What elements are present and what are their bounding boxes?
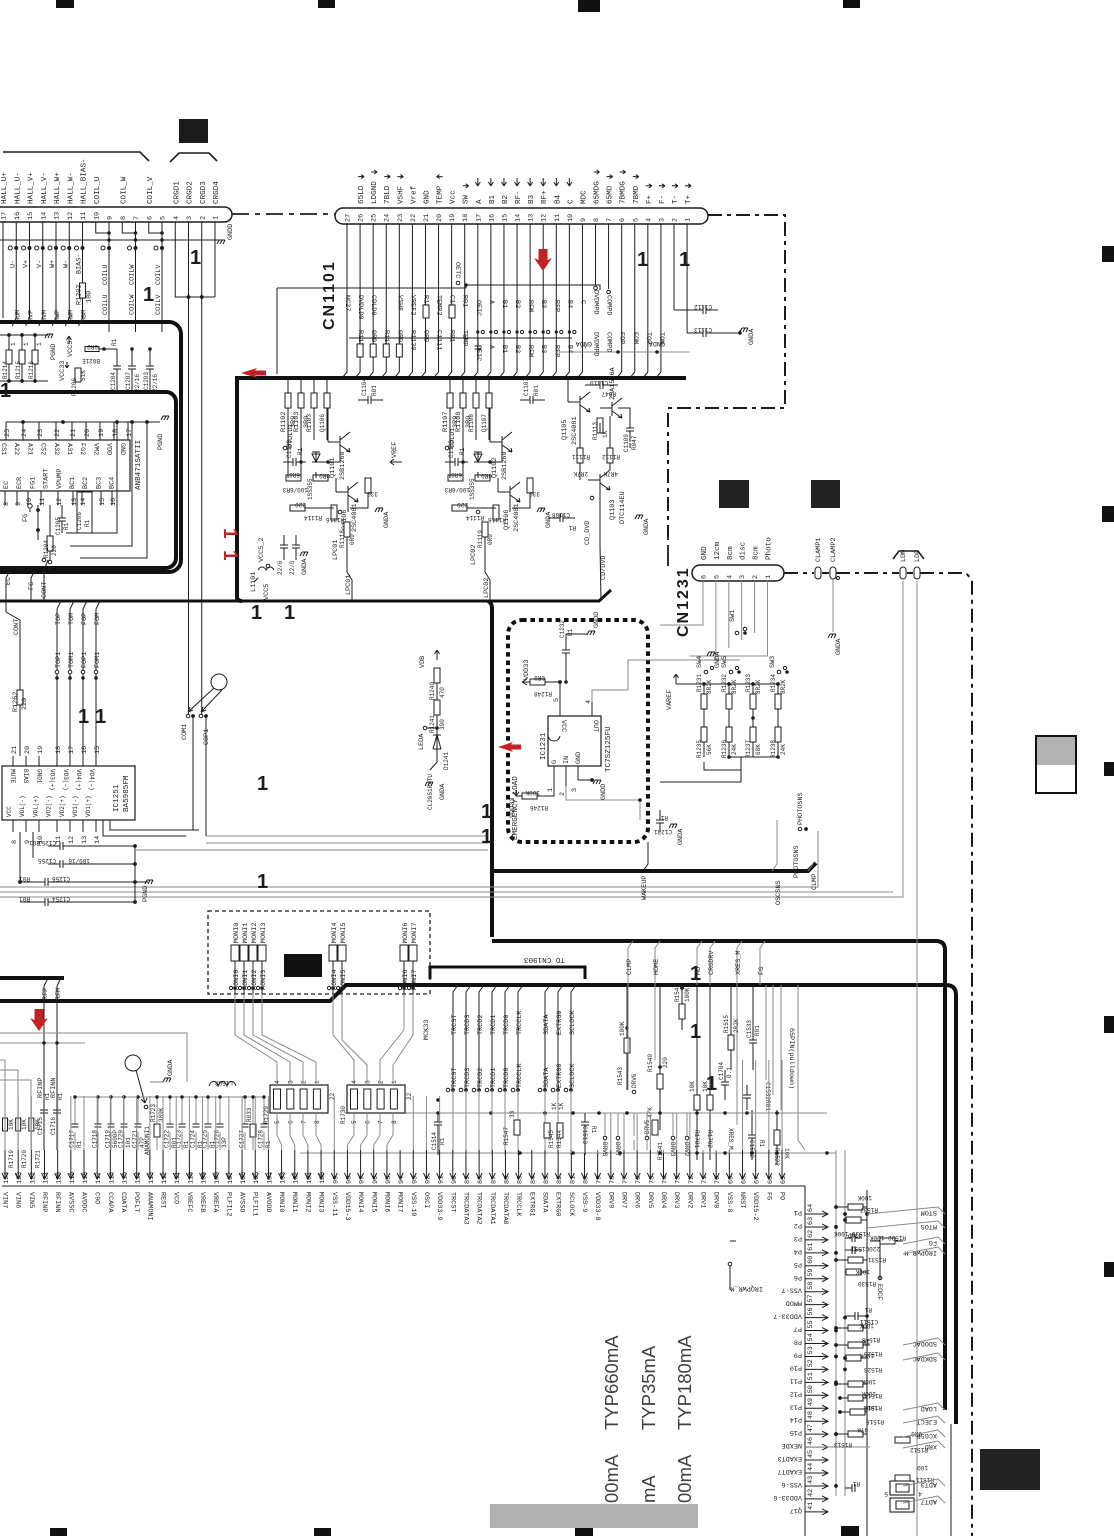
svg-text:P8: P8 xyxy=(794,1338,802,1346)
red revision marks xyxy=(0,247,717,1095)
svg-text:D1241: D1241 xyxy=(443,752,450,770)
svg-text:47K: 47K xyxy=(857,1426,868,1433)
svg-text:DRV7: DRV7 xyxy=(619,1192,627,1208)
heavy bus y1001 xyxy=(0,985,956,1424)
svg-text:CRGD4: CRGD4 xyxy=(213,181,221,204)
svg-text:B4: B4 xyxy=(554,194,562,204)
svg-text:R1: R1 xyxy=(63,522,70,530)
label WAKEUP xyxy=(641,842,649,900)
svg-text:53: 53 xyxy=(807,1346,815,1354)
resistor R1536 100K row P1 xyxy=(834,1212,870,1237)
svg-text:220: 220 xyxy=(51,545,58,556)
wire CLAMP2 ground xyxy=(828,577,843,656)
svg-text:121: 121 xyxy=(43,1172,51,1184)
svg-text:17: 17 xyxy=(68,746,76,754)
resistor R1103 3R9 xyxy=(293,378,311,440)
locator square bottom-right xyxy=(980,1449,1040,1490)
svg-text:80: 80 xyxy=(582,1176,590,1184)
svg-text:GNDA: GNDA xyxy=(167,1059,175,1076)
wires resistor network xyxy=(660,684,780,782)
svg-text:PO: PO xyxy=(778,1192,786,1200)
svg-text:DRV8: DRV8 xyxy=(606,1192,614,1208)
svg-text:1: 1 xyxy=(765,575,773,579)
svg-text:HALL_W+: HALL_W+ xyxy=(54,172,62,204)
svg-text:44: 44 xyxy=(807,1463,815,1471)
resistors R1545 R1544 1K 1K xyxy=(544,1102,565,1148)
current legend TYP660mA xyxy=(601,1335,622,1430)
svg-text:13: 13 xyxy=(528,214,536,222)
svg-text:R1515: R1515 xyxy=(723,1015,730,1033)
svg-text:97: 97 xyxy=(359,1176,367,1184)
wires IC1251 to switch long xyxy=(135,836,488,850)
resistor 47K row P15 xyxy=(834,1426,868,1437)
resistor R1522 10K xyxy=(773,1110,790,1166)
svg-text:VDD33: VDD33 xyxy=(523,660,531,680)
svg-text:MONI6: MONI6 xyxy=(402,923,410,943)
label VCC5_2 xyxy=(258,538,270,568)
svg-text:VM2: VM2 xyxy=(91,443,99,455)
label CL2051RXTU xyxy=(427,774,434,810)
wire GNDD rail xyxy=(0,224,235,244)
svg-text:1: 1 xyxy=(391,1080,398,1084)
label CONT below bus xyxy=(6,601,21,756)
svg-text:23: 23 xyxy=(397,214,405,222)
svg-text:VCC33: VCC33 xyxy=(59,361,67,381)
label EDCF xyxy=(875,1236,883,1300)
svg-text:P7: P7 xyxy=(794,1325,802,1333)
svg-text:R1240: R1240 xyxy=(429,682,436,700)
svg-text:98: 98 xyxy=(345,1176,353,1184)
IC1251 top inner labels xyxy=(9,769,95,791)
svg-text:IC1231: IC1231 xyxy=(540,732,548,760)
svg-text:7: 7 xyxy=(606,218,614,222)
svg-text:1K: 1K xyxy=(862,1338,870,1345)
svg-text:VSS-7: VSS-7 xyxy=(782,1286,802,1294)
svg-text:DRV6: DRV6 xyxy=(633,1192,641,1208)
IC top pins and rail xyxy=(4,420,160,440)
svg-text:RFINN: RFINN xyxy=(53,1192,61,1212)
svg-text:F-: F- xyxy=(659,195,667,204)
svg-text:BIAS-: BIAS- xyxy=(76,254,84,274)
svg-text:HOME: HOME xyxy=(653,959,661,975)
IC1231 pins xyxy=(547,698,599,796)
capacitor C1110 R047 xyxy=(585,379,618,397)
svg-text:112: 112 xyxy=(161,1172,169,1184)
capacitors C1115 C1116 22/10 xyxy=(277,535,309,575)
svg-text:EXTRG1: EXTRG1 xyxy=(527,1192,535,1216)
svg-text:56: 56 xyxy=(807,1307,815,1315)
svg-text:VOL(-): VOL(-) xyxy=(19,795,26,817)
svg-text:47: 47 xyxy=(807,1424,815,1432)
ground GNDA bottom xyxy=(150,1059,175,1082)
svg-text:100/6R3: 100/6R3 xyxy=(444,486,470,493)
svg-text:8cm: 8cm xyxy=(753,546,761,560)
label CD/DVD xyxy=(600,556,608,580)
resistor R1237 68K xyxy=(745,727,762,758)
resistors R1131 R1121 vertical upper xyxy=(423,305,455,318)
svg-text:SW: SW xyxy=(463,194,471,204)
svg-text:14: 14 xyxy=(515,214,523,222)
svg-text:C1514: C1514 xyxy=(431,1132,438,1150)
svg-text:64: 64 xyxy=(807,1204,815,1212)
svg-text:BA5985FM: BA5985FM xyxy=(123,775,131,812)
svg-text:1: 1 xyxy=(143,284,154,306)
svg-text:B2: B2 xyxy=(513,345,521,353)
svg-text:FOM: FOM xyxy=(94,613,102,625)
registration mark right 1 xyxy=(1102,246,1114,262)
resistor R1537 100K xyxy=(834,1194,878,1213)
svg-text:GNDA: GNDA xyxy=(643,518,651,535)
svg-text:106: 106 xyxy=(240,1172,248,1184)
svg-text:MONI1: MONI1 xyxy=(242,923,250,943)
svg-text:SW3: SW3 xyxy=(769,656,777,668)
svg-text:HALL_U-: HALL_U- xyxy=(14,172,22,204)
svg-text:DRV1: DRV1 xyxy=(699,1192,707,1208)
svg-text:61: 61 xyxy=(807,1243,815,1251)
svg-text:R1547: R1547 xyxy=(503,1127,510,1145)
svg-text:17: 17 xyxy=(126,429,134,437)
svg-text:58: 58 xyxy=(807,1282,815,1290)
svg-text:DRV3: DRV3 xyxy=(672,1192,680,1208)
svg-text:C1111: C1111 xyxy=(435,330,443,350)
svg-text:VSS-10: VSS-10 xyxy=(409,1192,417,1216)
svg-text:20: 20 xyxy=(84,429,92,437)
svg-text:SCLOCK: SCLOCK xyxy=(569,1010,577,1035)
svg-text:7: 7 xyxy=(301,1120,308,1124)
svg-text:U-: U- xyxy=(9,260,17,268)
svg-text:BC1: BC1 xyxy=(69,477,77,489)
svg-text:220: 220 xyxy=(662,1057,669,1068)
svg-text:RF+: RF+ xyxy=(541,190,549,204)
svg-text:GNDD: GNDD xyxy=(600,784,608,800)
svg-text:CRGD1: CRGD1 xyxy=(173,181,181,204)
bracket over LDM LDP xyxy=(893,551,924,559)
current legend TYP180mA xyxy=(674,1335,695,1430)
svg-text:110: 110 xyxy=(187,1172,195,1184)
svg-text:MONI4: MONI4 xyxy=(356,1192,364,1212)
svg-text:100K: 100K xyxy=(619,1021,626,1036)
circle FG xyxy=(22,504,40,540)
svg-text:RFP: RFP xyxy=(552,345,560,357)
svg-text:PHOTOSNS: PHOTOSNS xyxy=(793,845,801,878)
svg-text:100/16: 100/16 xyxy=(68,857,90,864)
svg-text:13: 13 xyxy=(81,836,89,844)
svg-text:93: 93 xyxy=(411,1176,419,1184)
svg-text:C1532R01: C1532R01 xyxy=(764,1082,771,1111)
svg-text:L1508: L1508 xyxy=(215,1079,233,1086)
svg-text:C: C xyxy=(567,199,575,204)
capacitor C1231 R1 xyxy=(654,810,685,845)
svg-text:8R2K: 8R2K xyxy=(755,679,762,694)
svg-text:GNDA: GNDA xyxy=(835,638,843,655)
svg-text:65: 65 xyxy=(780,1176,788,1184)
svg-text:1: 1 xyxy=(690,1021,701,1043)
svg-text:12cm: 12cm xyxy=(714,541,722,560)
svg-text:EXADT3: EXADT3 xyxy=(778,1454,802,1462)
svg-text:GNDA: GNDA xyxy=(439,783,447,800)
svg-text:C1110: C1110 xyxy=(590,379,608,386)
svg-text:VSS-9: VSS-9 xyxy=(580,1192,588,1212)
resistor R1531 row P4 xyxy=(834,1256,886,1263)
svg-text:GNDD: GNDD xyxy=(593,612,601,628)
svg-text:7: 7 xyxy=(378,1120,385,1124)
heavy short bus y978 xyxy=(0,978,64,1000)
IC right side return wires xyxy=(66,422,147,558)
svg-text:1: 1 xyxy=(481,801,492,823)
svg-text:3: 3 xyxy=(287,1080,294,1084)
svg-text:21: 21 xyxy=(11,746,19,754)
ground GNDA SW4 xyxy=(707,651,722,668)
svg-text:R047: R047 xyxy=(631,435,638,450)
svg-text:10K: 10K xyxy=(689,1081,696,1092)
svg-text:R1: R1 xyxy=(44,1092,51,1100)
labels CN1101 net names row2 xyxy=(356,330,469,350)
dash-dot boundary CN1231 right xyxy=(784,573,972,1536)
svg-text:12: 12 xyxy=(67,212,75,220)
svg-text:2: 2 xyxy=(672,218,680,222)
svg-text:8R2K: 8R2K xyxy=(706,679,713,694)
resistor R1511 100 xyxy=(895,1464,934,1483)
capacitor C1514 R1 xyxy=(431,1098,446,1155)
svg-text:100K: 100K xyxy=(684,987,691,1002)
svg-text:1: 1 xyxy=(685,218,693,222)
svg-text:MONI3: MONI3 xyxy=(317,1192,325,1212)
svg-text:VO4(-): VO4(-) xyxy=(88,769,95,791)
svg-text:Vcc: Vcc xyxy=(450,190,458,204)
resistor R1541 47K xyxy=(647,1107,664,1160)
svg-text:SCLOCK: SCLOCK xyxy=(569,1063,577,1088)
capacitor 470P C1530 xyxy=(845,1231,862,1242)
svg-text:T+: T+ xyxy=(685,194,693,204)
svg-text:R1: R1 xyxy=(84,519,91,527)
resistor R1523 100K xyxy=(843,1352,882,1373)
svg-text:103: 103 xyxy=(280,1172,288,1184)
svg-text:95: 95 xyxy=(385,1176,393,1184)
svg-text:8: 8 xyxy=(314,1120,321,1124)
signal jogs right bus xyxy=(867,1207,945,1505)
svg-text:C1206: C1206 xyxy=(76,512,83,530)
wires third cell xyxy=(548,378,630,601)
svg-text:DVDMPD: DVDMPD xyxy=(592,290,600,314)
svg-text:EC: EC xyxy=(5,577,13,585)
svg-text:VPUMP: VPUMP xyxy=(56,469,64,489)
svg-text:65LD: 65LD xyxy=(358,185,366,204)
wires COIL pairs xyxy=(96,222,164,332)
svg-text:A32: A32 xyxy=(52,443,60,455)
open circle pairs A B1 B2 row xyxy=(476,330,576,333)
transistor Q1101 2SB1260 xyxy=(328,432,350,480)
svg-text:3: 3 xyxy=(186,216,194,220)
label LEDA xyxy=(418,726,437,750)
wires TOP TOM FOP FOM xyxy=(55,601,102,756)
svg-text:R1215: R1215 xyxy=(15,361,22,379)
svg-text:111: 111 xyxy=(174,1172,182,1184)
resistor 0R0 cell xyxy=(475,472,492,481)
svg-text:75: 75 xyxy=(648,1176,656,1184)
svg-text:SDATA: SDATA xyxy=(543,1014,551,1035)
bus line y601 xyxy=(0,590,611,601)
svg-text:1: 1 xyxy=(284,602,295,624)
connector CN1101 pill xyxy=(335,208,708,224)
oval CLAMP1 xyxy=(815,538,823,579)
label MCK33 xyxy=(423,1020,431,1040)
resistor 0R0 B021E xyxy=(82,338,118,364)
svg-text:GNDD: GNDD xyxy=(227,224,235,240)
svg-text:100K: 100K xyxy=(863,1404,878,1411)
svg-text:220C1531: 220C1531 xyxy=(851,1245,880,1252)
svg-text:33: 33 xyxy=(509,1110,516,1118)
svg-text:R1729: R1729 xyxy=(263,1106,270,1124)
svg-text:57: 57 xyxy=(807,1294,815,1302)
resistor R1723 389K xyxy=(150,1097,165,1150)
svg-text:25: 25 xyxy=(4,429,12,437)
svg-text:MONI2: MONI2 xyxy=(251,923,259,943)
ground GNDA near C1113 xyxy=(740,328,756,345)
svg-text:C: C xyxy=(578,300,586,304)
labels GNDA under CN1101 xyxy=(575,339,665,347)
bracket TO CN1903 xyxy=(430,955,585,979)
svg-text:MONI7: MONI7 xyxy=(411,970,419,990)
svg-text:Photo: Photo xyxy=(766,537,774,560)
locator square mid 2 xyxy=(811,480,840,508)
svg-text:AVDDC: AVDDC xyxy=(80,1192,88,1212)
svg-text:3: 3 xyxy=(739,575,747,579)
svg-text:C1232: C1232 xyxy=(559,620,566,638)
svg-text:1: 1 xyxy=(637,249,648,271)
svg-text:TRCCLK: TRCCLK xyxy=(516,1063,524,1088)
node COM1 COP1 circle xyxy=(181,674,227,836)
label IRQPWR_M open xyxy=(728,1241,763,1292)
svg-text:18: 18 xyxy=(55,746,63,754)
svg-text:P2: P2 xyxy=(794,1221,802,1229)
svg-text:R1103: R1103 xyxy=(306,414,313,432)
svg-text:BC4: BC4 xyxy=(109,477,117,489)
svg-text:1: 1 xyxy=(0,380,11,402)
svg-text:R1119: R1119 xyxy=(477,530,484,548)
svg-text:49: 49 xyxy=(807,1398,815,1406)
svg-text:R1248: R1248 xyxy=(534,690,552,697)
svg-text:P10: P10 xyxy=(790,1363,802,1371)
red arrow left mid xyxy=(498,742,521,752)
svg-text:R1241: R1241 xyxy=(429,715,436,733)
wires CN1101 pins down xyxy=(342,224,690,378)
svg-text:VO1(+): VO1(+) xyxy=(85,795,92,817)
svg-text:RF-: RF- xyxy=(515,190,523,204)
svg-text:1: 1 xyxy=(95,706,106,728)
svg-text:R1537: R1537 xyxy=(860,1206,878,1213)
svg-text:C1113: C1113 xyxy=(694,326,712,333)
svg-text:R1546: R1546 xyxy=(674,984,681,1002)
resistor R1232 8R2K xyxy=(721,674,738,709)
svg-text:DVDMPD: DVDMPD xyxy=(592,332,600,356)
svg-text:VO4(+): VO4(+) xyxy=(75,769,82,791)
svg-text:R1118: R1118 xyxy=(339,530,346,548)
svg-text:CRGDRV: CRGDRV xyxy=(708,950,716,975)
svg-text:MONI1: MONI1 xyxy=(290,1192,298,1212)
svg-text:SW1: SW1 xyxy=(729,610,737,622)
svg-text:2R7K: 2R7K xyxy=(573,470,588,477)
svg-text:CL2051RXTU: CL2051RXTU xyxy=(427,774,434,810)
svg-text:FG2: FG2 xyxy=(78,443,86,455)
svg-text:8cm: 8cm xyxy=(727,546,735,560)
svg-text:VREF2: VREF2 xyxy=(408,295,416,315)
svg-text:R1116: R1116 xyxy=(488,516,506,523)
svg-text:TRCD3: TRCD3 xyxy=(464,1068,472,1088)
capacitor near pin 43 xyxy=(845,1480,860,1492)
svg-text:TRCDATA0: TRCDATA0 xyxy=(501,1192,509,1225)
svg-text:CD/DVD: CD/DVD xyxy=(600,556,608,580)
svg-text:17: 17 xyxy=(475,214,483,222)
svg-text:SDATA: SDATA xyxy=(543,1067,551,1088)
svg-text:2SA1576A: 2SA1576A xyxy=(609,366,617,400)
emergency load dashed box xyxy=(508,620,648,842)
svg-text:15: 15 xyxy=(27,212,35,220)
svg-text:VO2(+): VO2(+) xyxy=(59,795,66,817)
svg-text:99: 99 xyxy=(332,1176,340,1184)
capacitor C1107 R01 xyxy=(520,378,545,404)
svg-text:124: 124 xyxy=(3,1172,11,1184)
svg-text:B1: B1 xyxy=(489,194,497,204)
svg-text:24K: 24K xyxy=(780,744,787,755)
svg-text:LPC02: LPC02 xyxy=(470,545,478,565)
svg-text:R1: R1 xyxy=(864,1306,872,1313)
vertical wires pins 65-81 xyxy=(571,1060,782,1153)
svg-text:DRV5: DRV5 xyxy=(646,1192,654,1208)
labels DRV8 DRV7 circles xyxy=(601,1136,621,1157)
svg-text:C1721: C1721 xyxy=(132,1130,139,1148)
svg-text:R1721: R1721 xyxy=(34,1150,41,1168)
inductor L1508 xyxy=(209,1079,236,1086)
svg-text:1: 1 xyxy=(706,1073,717,1095)
svg-text:R1543: R1543 xyxy=(617,1067,624,1085)
svg-text:86: 86 xyxy=(503,1176,511,1184)
red arrow down CN1101 xyxy=(534,249,552,271)
diode D1241 xyxy=(430,735,450,770)
svg-text:ANAMONI: ANAMONI xyxy=(145,1192,153,1221)
wires DRV bus descent xyxy=(605,985,737,1150)
svg-text:V+: V+ xyxy=(23,260,31,268)
svg-text:B4: B4 xyxy=(565,345,573,353)
svg-text:C1513: C1513 xyxy=(581,1126,588,1144)
capacitor C1256 xyxy=(18,875,137,886)
svg-text:BIAS: BIAS xyxy=(22,769,29,784)
svg-text:96: 96 xyxy=(372,1176,380,1184)
svg-text:PGND: PGND xyxy=(157,434,165,450)
svg-text:62: 62 xyxy=(807,1230,815,1238)
svg-text:5: 5 xyxy=(713,575,721,579)
svg-text:HALL_V-: HALL_V- xyxy=(41,172,49,204)
svg-text:R1114: R1114 xyxy=(466,514,484,521)
svg-text:123: 123 xyxy=(16,1172,24,1184)
svg-text:COMPD: COMPD xyxy=(605,295,613,315)
resistor array R1730 xyxy=(340,1080,413,1124)
svg-text:42: 42 xyxy=(807,1489,815,1497)
svg-text:21: 21 xyxy=(423,214,431,222)
wires CN1231 down xyxy=(660,581,768,660)
svg-text:RFM: RFM xyxy=(55,988,63,1000)
long wires COM COP vertical xyxy=(189,297,202,714)
svg-text:AVODD: AVODD xyxy=(264,1192,272,1212)
svg-text:VDD: VDD xyxy=(105,443,113,455)
red pair rotated near VCC5_2 xyxy=(219,528,240,561)
svg-text:TYP35mA: TYP35mA xyxy=(638,1345,659,1430)
svg-text:GND: GND xyxy=(701,546,709,560)
svg-text:33P: 33P xyxy=(221,1137,228,1148)
svg-text:65PIN(pulldown): 65PIN(pulldown) xyxy=(787,1028,795,1089)
resistor 330 cell xyxy=(365,478,378,497)
registration mark bottom 2 xyxy=(314,1528,331,1536)
svg-text:MONI7: MONI7 xyxy=(411,923,419,943)
